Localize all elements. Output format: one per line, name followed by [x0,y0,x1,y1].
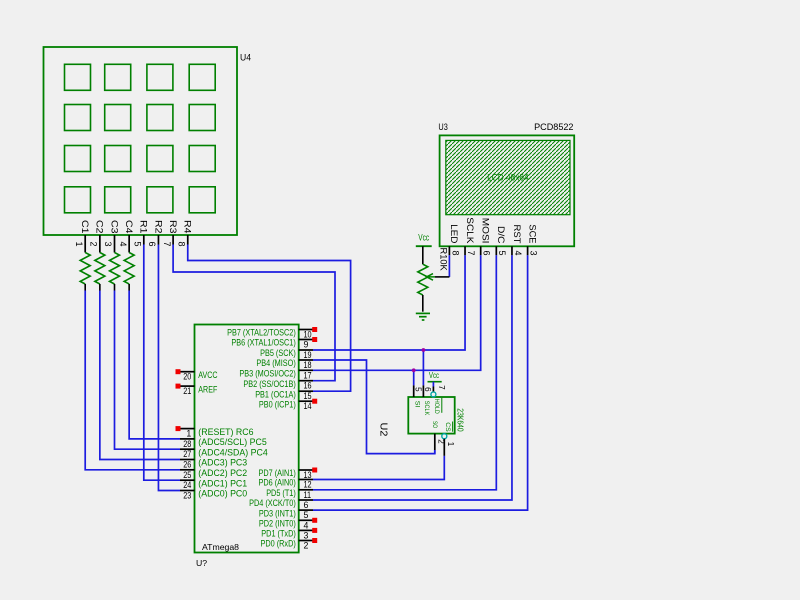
svg-text:SCLK: SCLK [465,217,475,244]
ground symbol under R10K [416,312,430,314]
svg-text:(ADC5/SCL) PC5: (ADC5/SCL) PC5 [198,437,267,447]
svg-text:AREF: AREF [198,384,218,394]
keypad pin 3 (C3) stub [114,235,116,253]
svg-text:20: 20 [183,372,191,382]
svg-text:21: 21 [183,386,191,396]
svg-text:U3: U3 [438,122,447,132]
junction on MOSI net [412,368,416,372]
wire ATmega pin 12 -> U2 CS [313,456,444,480]
svg-text:AVCC: AVCC [198,370,218,380]
U2 pin 7 inversion bubble [431,392,436,397]
ATmega8 right pin 5 PD3 (INT1) stub [299,509,313,511]
svg-text:23K640: 23K640 [456,408,465,432]
keypad pin 2 (C2) stub [99,235,101,253]
ATmega8 right pin 3 PD1 (TxD) stub [299,529,313,531]
svg-text:CS: CS [444,422,451,432]
wire Vcc to HOLD bubble [432,382,434,387]
wire LCD SCLK -> ATmega pin 19 (net SCK) [313,255,465,350]
ATmega8 right pin 4 PD2 (INT0) stub [299,519,313,521]
wire ATmega pin 11 -> LCD D/C [313,255,496,489]
svg-text:5: 5 [413,387,422,392]
svg-text:PB3 (MOSI/OC2): PB3 (MOSI/OC2) [239,369,295,379]
svg-text:7: 7 [162,241,172,246]
svg-text:(RESET) RC6: (RESET) RC6 [198,427,253,437]
svg-text:11: 11 [304,490,312,500]
memory U2 23K640 body [408,397,454,434]
svg-text:R1: R1 [138,220,149,234]
svg-text:PB4 (MISO): PB4 (MISO) [256,358,295,368]
potentiometer R10K body [418,264,428,295]
svg-text:4: 4 [304,520,309,530]
no-connect marker pin 4 [312,518,317,523]
svg-text:3: 3 [103,241,113,246]
ATmega8 right pin 18 PB4 (MISO) stub [299,359,313,361]
svg-text:1: 1 [186,429,191,439]
wire branch to U2 pin 5 SI [413,370,415,385]
svg-text:R4: R4 [182,220,193,234]
svg-text:16: 16 [304,381,312,391]
LCD U3 body [440,135,575,246]
svg-text:U4: U4 [240,53,251,63]
no-connect marker pin 9 [312,337,317,342]
svg-text:1: 1 [446,442,455,447]
svg-text:LCD 48x84: LCD 48x84 [487,173,529,183]
keypad pin 1 (C1) stub [84,235,86,253]
svg-text:RST: RST [512,225,522,244]
wire keypad C4 -> ATmega pin 28 [129,291,180,439]
svg-text:5: 5 [133,241,143,246]
svg-text:2: 2 [304,541,309,551]
svg-text:7: 7 [466,250,476,255]
svg-text:C1: C1 [79,220,90,234]
svg-text:R10K: R10K [439,248,449,272]
no-connect marker pin 21 [176,384,181,389]
svg-text:5: 5 [497,250,507,255]
LCD pin 3 (SCE) stub [527,246,529,255]
wire keypad C2 -> ATmega pin 26 [100,291,180,460]
svg-text:8: 8 [450,250,460,255]
U2 pin 1 inversion bubble [442,434,447,439]
svg-text:SCE: SCE [527,224,537,243]
svg-text:13: 13 [304,470,312,480]
wire ATmega pin 18 MISO -> U2 SO [313,360,435,454]
ATmega8 left pin 1 (RESET) RC6 stub [180,428,195,430]
no-connect marker pin 1 [176,426,181,431]
svg-text:(ADC0) PC0: (ADC0) PC0 [198,489,247,499]
wire LCD MOSI -> ATmega pin 17 (net MOSI) [313,255,481,370]
series resistor on keypad column C1 [80,253,90,284]
ATmega8 right pin 12 PD6 (AIN0) stub [299,479,313,481]
svg-text:10: 10 [304,330,312,340]
ATmega8 left pin 21 AREF stub [180,385,195,387]
ATmega8 right pin 16 PB2 (SS/OC1B) stub [299,380,313,382]
LCD pin 6 (MOSI) stub [480,246,482,255]
keypad pin 5 (R1) stub [143,235,145,245]
svg-text:Vcc: Vcc [429,370,440,380]
svg-text:17: 17 [304,370,312,380]
svg-text:6: 6 [304,500,309,510]
svg-text:PD5 (T1): PD5 (T1) [266,488,296,498]
svg-text:C4: C4 [123,220,134,234]
svg-text:8: 8 [176,241,186,246]
svg-text:PD4 (XCK/T0): PD4 (XCK/T0) [249,498,296,508]
svg-text:4: 4 [513,250,523,255]
wire keypad R4 -> ATmega pin 15 [188,245,351,392]
LCD pin 5 (D/C) stub [495,246,497,255]
ATmega8 right pin 13 PD7 (AIN1) stub [299,469,313,471]
svg-text:1: 1 [74,241,84,246]
microcontroller U? ATmega8 body [195,325,299,553]
svg-text:5: 5 [304,510,309,520]
keypad U4 key squares [65,64,216,213]
svg-text:SO: SO [431,421,438,428]
svg-text:PB5 (SCK): PB5 (SCK) [260,348,296,358]
svg-text:4: 4 [118,241,128,246]
U2 pin 6 SCLK stub [422,385,424,397]
svg-text:PCD8522: PCD8522 [534,122,573,132]
svg-text:6: 6 [147,241,157,246]
keypad pin 7 (R3) stub [172,235,174,245]
U2 pin 2 SO stub [434,434,436,450]
svg-text:Vcc: Vcc [418,233,429,243]
ATmega8 left pin 28 (ADC5/SCL) PC5 stub [180,438,195,440]
no-connect marker pin 10 [312,327,317,332]
series resistor on keypad column C4 [124,253,134,284]
ATmega8 right pin 2 PD0 (RxD) stub [299,540,313,542]
svg-text:R2: R2 [152,220,163,234]
wire keypad R2 -> ATmega pin 23 [158,245,180,491]
no-connect marker pin 3 [312,528,317,533]
svg-text:(ADC1) PC1: (ADC1) PC1 [198,478,247,488]
svg-text:PD2 (INT0): PD2 (INT0) [259,519,296,529]
svg-text:26: 26 [183,460,191,470]
svg-text:2: 2 [89,241,99,246]
ATmega8 right pin 6 PD4 (XCK/T0) stub [299,499,313,501]
ATmega8 left pin 23 (ADC0) PC0 stub [180,490,195,492]
ATmega8 left pin 27 (ADC4/SDA) PC4 stub [180,448,195,450]
svg-text:7: 7 [437,385,446,390]
svg-text:C3: C3 [108,220,119,234]
wire ATmega pin 5 -> LCD SCE [313,255,528,510]
svg-text:PD0 (RxD): PD0 (RxD) [261,539,296,549]
svg-text:19: 19 [304,350,312,360]
LCD pin 4 (RST) stub [511,246,513,255]
keypad U4 body [44,47,238,235]
wire keypad R3 -> ATmega pin 16 [173,245,335,381]
svg-text:D/C: D/C [496,226,506,244]
svg-text:(ADC4/SDA) PC4: (ADC4/SDA) PC4 [198,447,268,457]
svg-text:3: 3 [304,530,309,540]
no-connect marker pin 20 [176,369,181,374]
R10K lower lead [422,295,424,312]
U2 pin 1 CS stub [443,439,445,456]
svg-text:(ADC3) PC3: (ADC3) PC3 [198,458,247,468]
svg-text:28: 28 [183,439,191,449]
keypad pin 8 (R4) stub [187,235,189,245]
svg-text:27: 27 [183,449,191,459]
ATmega8 right pin 15 PB1 (OC1A) stub [299,390,313,392]
svg-text:12: 12 [304,480,312,490]
svg-text:ATmega8: ATmega8 [202,542,239,552]
svg-text:6: 6 [482,250,492,255]
svg-text:PB7 (XTAL2/TOSC2): PB7 (XTAL2/TOSC2) [227,328,296,338]
svg-text:24: 24 [183,480,191,490]
ATmega8 left pin 24 (ADC1) PC1 stub [180,479,195,481]
wire keypad C3 -> ATmega pin 27 [115,291,181,450]
svg-text:C2: C2 [94,220,105,234]
junction on SCK net [422,348,426,352]
ATmega8 left pin 26 (ADC3) PC3 stub [180,459,195,461]
svg-text:25: 25 [183,470,191,480]
svg-text:PD7 (AIN1): PD7 (AIN1) [259,468,296,478]
no-connect marker pin 14 [312,399,317,404]
wire LCD LED -> potentiometer wiper [448,255,450,277]
svg-text:PD1 (TxD): PD1 (TxD) [261,529,296,539]
wire keypad C1 -> ATmega pin 25 [85,291,180,470]
svg-text:SI: SI [413,401,420,408]
svg-text:PB2 (SS/OC1B): PB2 (SS/OC1B) [243,379,295,389]
keypad pin 6 (R2) stub [157,235,159,245]
ATmega8 right pin 19 PB5 (SCK) stub [299,349,313,351]
ATmega8 right pin 11 PD5 (T1) stub [299,489,313,491]
svg-text:6: 6 [423,387,432,392]
series resistor on keypad column C2 [95,253,105,284]
svg-text:U2: U2 [378,423,389,437]
svg-text:PD6 (AIN0): PD6 (AIN0) [259,478,296,488]
svg-text:PB0 (ICP1): PB0 (ICP1) [259,399,296,409]
svg-text:3: 3 [529,250,539,255]
LCD pin 8 (LED) stub [448,246,450,255]
svg-text:HOLD: HOLD [433,399,440,414]
series resistor on keypad column C3 [110,253,120,284]
svg-text:U?: U? [196,558,207,568]
svg-text:(ADC2) PC2: (ADC2) PC2 [198,468,247,478]
svg-text:SCLK: SCLK [423,401,430,416]
ATmega8 left pin 20 AVCC stub [180,371,195,373]
wire ATmega pin 6 -> LCD RST [313,255,512,500]
svg-text:MOSI: MOSI [480,218,490,244]
svg-text:15: 15 [304,391,312,401]
svg-text:PD3 (INT1): PD3 (INT1) [259,508,296,518]
svg-text:PB1 (OC1A): PB1 (OC1A) [255,389,296,399]
U2 pin 5 SI stub [413,385,415,397]
R10K wiper arrow [435,276,449,278]
svg-text:9: 9 [304,340,309,350]
ATmega8 right pin 17 PB3 (MOSI/OC2) stub [299,369,313,371]
keypad pin 4 (C4) stub [128,235,130,253]
wire keypad R1 -> ATmega pin 24 [144,245,180,481]
no-connect marker pin 13 [312,468,317,473]
ATmega8 left pin 25 (ADC2) PC2 stub [180,469,195,471]
LCD pin 7 (SCLK) stub [464,246,466,255]
svg-text:R3: R3 [167,220,178,234]
svg-text:LED: LED [449,224,459,244]
R10K upper lead [422,246,424,264]
ATmega8 right pin 10 PB7 (XTAL2/TOSC2) stub [299,329,313,331]
svg-text:23: 23 [183,491,191,501]
LCD hatched screen area [446,140,570,214]
svg-text:PB6 (XTAL1/OSC1): PB6 (XTAL1/OSC1) [231,338,295,348]
ATmega8 right pin 14 PB0 (ICP1) stub [299,400,313,402]
svg-text:18: 18 [304,360,312,370]
no-connect marker pin 2 [312,538,317,543]
ATmega8 right pin 9 PB6 (XTAL1/OSC1) stub [299,339,313,341]
wire branch to U2 pin 6 SCLK [422,350,424,385]
svg-text:14: 14 [304,401,312,411]
